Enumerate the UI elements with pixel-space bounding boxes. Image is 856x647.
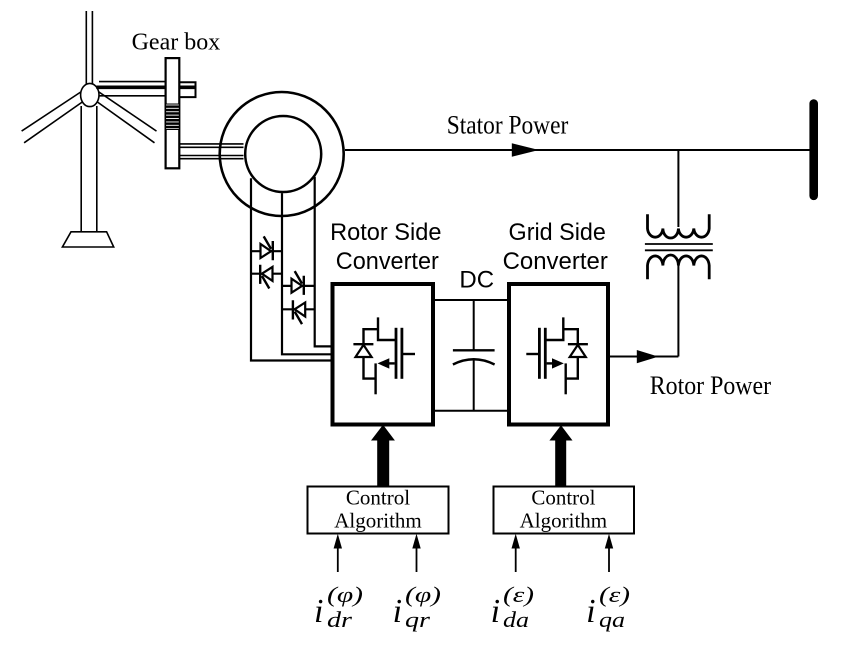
svg-text:i: i (314, 593, 323, 630)
thyristor A2 (251, 265, 282, 289)
control algorithm box 2 (494, 487, 635, 534)
label: i_qr^(phi) (393, 582, 441, 632)
wind turbine hub (81, 83, 99, 106)
wire: transformer to rotor power line (677, 264, 679, 357)
svg-text:(ε): (ε) (503, 582, 534, 607)
rotor wire 3 (315, 177, 331, 347)
IGBT U2 (grid side) (526, 317, 588, 394)
svg-text:Grid Side: Grid Side (509, 219, 606, 246)
stator power arrow (512, 143, 539, 157)
wind turbine base (62, 232, 113, 247)
thick control arrow 1 (371, 425, 395, 487)
svg-text:(φ): (φ) (405, 582, 441, 607)
gearbox (166, 58, 180, 168)
svg-text:Gear box: Gear box (132, 29, 221, 55)
control algorithm box 1 (308, 487, 449, 534)
svg-text:Stator Power: Stator Power (447, 111, 569, 140)
wind turbine tower (81, 106, 97, 232)
wind turbine blade (right) (97, 92, 157, 143)
rotor wire 1 (251, 178, 331, 360)
input arrow 4 (605, 534, 613, 572)
svg-text:(φ): (φ) (327, 582, 363, 607)
svg-text:i: i (491, 593, 500, 630)
svg-text:Algorithm: Algorithm (334, 509, 422, 533)
wind turbine blade (vertical) (86, 11, 92, 85)
rotor power wire (610, 356, 678, 358)
capacitor C (DC link) (453, 300, 495, 411)
svg-text:i: i (393, 593, 402, 630)
rotor power arrow (637, 350, 659, 363)
wind turbine blade (left) (22, 92, 83, 143)
transformer core (645, 244, 713, 250)
svg-text:Converter: Converter (503, 248, 608, 275)
svg-text:dr: dr (327, 607, 353, 632)
generator inner circle (rotor) (245, 116, 321, 192)
svg-text:Control: Control (346, 485, 410, 509)
svg-text:Control: Control (531, 485, 595, 509)
svg-text:qa: qa (599, 607, 625, 632)
svg-text:da: da (503, 607, 529, 632)
input arrow 3 (512, 534, 520, 572)
svg-text:Rotor Power: Rotor Power (650, 371, 772, 400)
input arrow 2 (412, 534, 420, 572)
svg-text:(ε): (ε) (599, 582, 630, 607)
shaft gearbox-to-generator (179, 144, 243, 159)
generator outer circle (stator) (220, 92, 344, 216)
thyristor B1 (282, 271, 315, 295)
thick control arrow 2 (549, 425, 572, 486)
thyristor A1 (251, 236, 282, 260)
grid side converter box (509, 284, 608, 425)
DC link wire top (433, 299, 509, 301)
svg-text:DC: DC (459, 267, 494, 294)
svg-text:Converter: Converter (336, 248, 439, 275)
IGBT U1 (rotor side) (353, 317, 415, 394)
rotor wire 2 (282, 193, 331, 354)
DC link wire bottom (433, 410, 509, 412)
svg-text:i: i (586, 593, 595, 630)
label: i_da^(eps) (491, 582, 534, 632)
transformer secondary coil (648, 255, 710, 279)
shaft hub-to-gearbox (96, 82, 196, 98)
rotor side converter box (333, 284, 434, 425)
gearbox hatch (166, 104, 180, 130)
transformer primary coil (648, 214, 710, 238)
thyristor B2 (282, 300, 315, 324)
grid busbar (809, 104, 818, 196)
svg-text:Rotor Side: Rotor Side (330, 219, 441, 246)
input arrow 1 (334, 534, 342, 572)
wire: grid branch to transformer (677, 150, 679, 227)
svg-text:Algorithm: Algorithm (520, 509, 608, 533)
svg-text:qr: qr (405, 607, 431, 632)
stator power wire (345, 149, 810, 151)
label: i_dr^(phi) (314, 582, 363, 632)
label: i_qa^(eps) (586, 582, 630, 632)
